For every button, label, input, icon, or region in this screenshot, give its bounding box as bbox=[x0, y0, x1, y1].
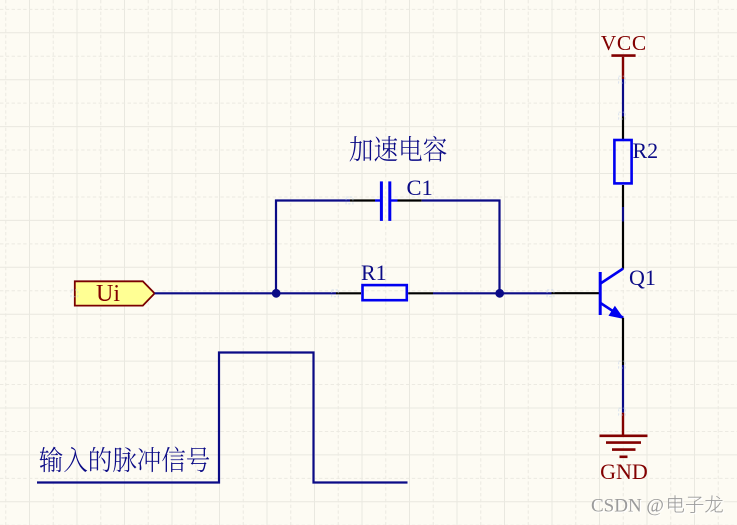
svg-text:C1: C1 bbox=[407, 175, 433, 200]
port Ui bbox=[75, 281, 155, 307]
capacitor C1 bbox=[350, 181, 422, 221]
waveform pulse signal bbox=[37, 353, 408, 483]
power port VCC bbox=[601, 31, 647, 79]
annotation 加速电容 bbox=[350, 136, 447, 162]
ground GND bbox=[600, 413, 648, 457]
svg-text:GND: GND bbox=[600, 459, 648, 484]
wire node A up to C1 bbox=[276, 201, 350, 295]
wire R2 to Q1 collector bbox=[622, 207, 624, 222]
pin hotspot markers bbox=[71, 76, 625, 415]
svg-text:R2: R2 bbox=[633, 138, 659, 163]
resistor R1 bbox=[336, 285, 433, 300]
wire VCC to R2 bbox=[622, 79, 624, 117]
wire Q1 emitter to GND bbox=[622, 365, 624, 413]
transistor Q1 bbox=[552, 222, 624, 366]
wire R1 to node B bbox=[433, 292, 500, 294]
wire Ui to node A bbox=[155, 292, 276, 294]
junction node B bbox=[495, 289, 504, 298]
resistor R2 bbox=[614, 117, 631, 208]
wire node A to R1 bbox=[276, 292, 336, 294]
watermark CSDN bbox=[591, 495, 724, 517]
svg-text:CSDN @: CSDN @ bbox=[591, 496, 664, 517]
svg-text:Q1: Q1 bbox=[629, 265, 656, 290]
svg-text:VCC: VCC bbox=[601, 31, 647, 55]
svg-text:R1: R1 bbox=[361, 260, 387, 285]
annotation 输入的脉冲信号 bbox=[39, 447, 209, 473]
wire node B to Q1 base bbox=[500, 292, 552, 294]
junction node A bbox=[272, 289, 281, 298]
wire C1 to node B bbox=[422, 201, 500, 295]
svg-text:Ui: Ui bbox=[96, 281, 120, 307]
